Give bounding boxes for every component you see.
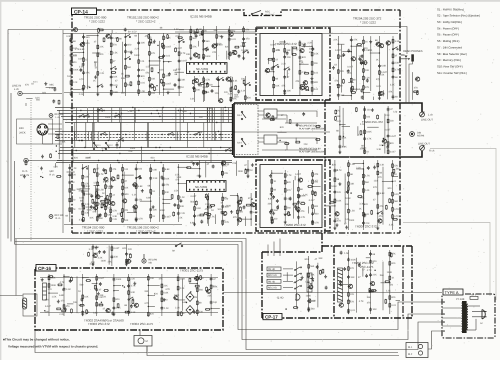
wire W239 [87,108,89,123]
resistor R172 [299,70,301,75]
svg-text:3.3K: 3.3K [66,288,71,291]
wire W162 [48,274,50,316]
junction dots on mute box [241,102,416,157]
resistor R147 [243,27,245,32]
svg-text:R ch: R ch [50,174,56,177]
wire W178 [161,274,163,316]
svg-text:0.047: 0.047 [87,208,94,211]
svg-text:1.5K: 1.5K [380,74,385,77]
svg-text:560: 560 [356,88,361,91]
wire W60 [362,36,364,100]
capacitor C273 [93,201,96,205]
svg-text:4.7K: 4.7K [210,216,215,219]
svg-text:M-1: M-1 [408,346,413,349]
svg-text:6.8K: 6.8K [80,48,85,51]
line-out return wire right edge [430,149,496,301]
resistor R238 [122,179,124,184]
svg-text:3.3K: 3.3K [389,223,394,226]
resistor R146 [216,34,218,39]
capacitor C147 [311,47,314,51]
junction J84 [178,183,179,184]
section headphone feed [413,72,420,100]
capacitor C125 [202,39,205,43]
ground G39 [376,226,379,229]
junction J30 [108,147,109,148]
capacitor C232 [92,245,95,249]
svg-text:47K: 47K [353,39,358,42]
svg-text:0.047: 0.047 [191,195,198,198]
svg-text:TR203 2SC-372: TR203 2SC-372 [275,42,297,46]
wire W206 [80,188,90,190]
wire W31 [198,41,200,47]
resistor R268 [245,169,247,174]
junction J138 [303,156,304,157]
ground G10 [242,56,245,59]
capacitor C129 [228,52,231,56]
resistor R291 [284,205,286,210]
svg-text:1.5K: 1.5K [117,213,122,216]
resistor R374 [189,278,191,283]
capacitor C105 [82,41,85,45]
junction J70 [363,92,364,93]
svg-text:22K: 22K [164,284,169,287]
resistor R344 [82,294,84,299]
transistor Q108 [194,79,199,83]
svg-text:4.7K: 4.7K [60,281,65,284]
wire W181 [196,274,198,316]
switch S6 rec muting [251,11,274,17]
svg-text:6.8K: 6.8K [342,145,347,148]
wire W197 [355,258,357,313]
wire W243 [96,108,98,123]
wire W153 [26,97,32,99]
capacitor C107 [110,36,113,40]
resistor R273 [237,209,239,214]
resistor R180 [292,47,297,49]
resistor R267 [221,171,223,176]
transistor Q105 [232,51,237,55]
wire W107 [94,184,100,186]
svg-text:33K: 33K [165,191,170,194]
svg-text:1K: 1K [376,58,379,61]
resistor R184 [337,69,339,74]
bus band A wire 1 [55,107,232,109]
plug loop box [23,294,37,316]
ground G16 [310,77,313,80]
wire W142 [362,160,364,230]
ground G48 [92,262,95,265]
svg-text:0.01: 0.01 [233,80,238,83]
resistor R260 [83,217,85,222]
junction J131 [414,102,415,103]
wire W121 [250,193,252,226]
switch box S3 dashed border [234,105,258,155]
svg-text:33K: 33K [350,276,355,279]
switch net wires L [258,111,317,123]
svg-text:R ch: R ch [429,150,435,153]
wire W187 [182,279,184,311]
resistor R411 [99,29,104,31]
junction J129 [411,102,412,103]
svg-text:PB HD: PB HD [268,280,275,283]
wire W85 [361,147,366,149]
junction J44 [80,110,81,111]
junction J108 [148,285,149,286]
ground G8 [189,56,192,59]
ground G7 [167,91,170,94]
resistor R197 [351,92,356,94]
capacitor C132 [205,48,208,52]
resistor R383 [125,311,130,313]
resistor R395 [389,261,391,266]
wire W83 [342,125,350,127]
svg-text:560: 560 [79,283,84,286]
junction J75 [383,138,384,139]
junction J15 [158,113,159,114]
svg-text:0.01: 0.01 [334,169,339,172]
resistor R308 [348,172,350,177]
resistor R393 [348,299,350,304]
wire W124 [237,196,239,225]
block CP-17 bottom border [262,317,412,319]
svg-text:100K: 100K [205,55,211,58]
motor M301 [134,336,152,347]
switch S15 [285,212,291,215]
svg-text:1.5K: 1.5K [153,177,158,180]
wire W149 [363,169,365,226]
junction J51 [163,61,164,62]
resistor R341 [48,275,50,280]
svg-text:1K: 1K [391,276,394,279]
capacitor C261 [369,273,372,277]
svg-text:47K: 47K [314,173,319,176]
wire W33 [232,49,236,51]
transistor Q148 [348,284,353,288]
resistor R164 [202,91,207,93]
junction J89 [250,218,251,219]
svg-text:22K: 22K [212,285,217,288]
switch S23 [84,114,90,117]
resistor R286 [271,187,273,192]
capacitor C134 [195,34,198,38]
svg-text:1K: 1K [152,215,155,218]
svg-text:0.047: 0.047 [181,60,188,63]
wire W26 [228,26,230,60]
transistor Q134 [237,218,242,222]
label CP-17 [263,314,282,320]
resistor R251 [171,194,173,199]
capacitor C264 [365,274,368,278]
op-amp IC101 NE-545B [187,63,228,74]
input wire top rail [8,29,258,31]
wire W228 [214,108,216,141]
svg-text:PB HD: PB HD [268,268,275,271]
ground G36 [272,212,275,215]
ground G41 [373,166,376,169]
junction J96 [392,181,393,182]
switch S14 [136,175,142,178]
wire W203 [83,182,85,216]
ground rail L [64,92,182,94]
svg-text:■This Circuit may be changed w: ■This Circuit may be changed without not… [3,337,70,341]
junction J27 [216,122,217,123]
capacitor C130 [242,37,245,41]
wire W84 [357,126,359,136]
capacitor C123 [168,72,171,76]
ground G21 [371,108,374,111]
head switch rows [267,267,302,290]
resistor R199 [357,44,362,46]
resistor R264 [101,203,103,208]
switch S19 [79,114,85,117]
resistor R353 [161,283,163,288]
capacitor C179 [81,202,84,206]
transistor Q118 [386,41,391,45]
capacitor C117 [178,78,181,82]
svg-text:100K: 100K [349,219,355,222]
svg-text:0.047: 0.047 [384,128,391,131]
capacitor C222 [334,169,337,173]
svg-text:33K: 33K [71,189,76,192]
svg-text:560: 560 [274,209,279,212]
transistor Q127 [132,183,137,187]
resistor R302 [272,219,274,224]
junction J60 [231,86,232,87]
svg-text:1.5K: 1.5K [99,188,104,191]
capacitor C216 [270,192,273,196]
rec head coil [307,273,312,292]
resistor R321 [392,199,394,204]
svg-text:100K: 100K [387,271,393,274]
ground G28 [247,174,250,177]
capacitor C215 [298,194,301,198]
label CP-16 [36,265,56,272]
svg-text:6.8K: 6.8K [107,185,112,188]
resistor R179 [268,58,273,60]
wire W88 [96,164,98,222]
capacitor C205 [200,220,203,224]
svg-text:470: 470 [378,176,383,179]
jack LINE OUT R [418,143,435,153]
resistor R365 [98,304,103,306]
resistor R158 [230,97,232,102]
svg-text:1K: 1K [273,180,276,183]
resistor R125 [163,82,165,87]
resistor R342 [48,283,50,288]
resistor R399 [369,288,371,293]
resistor R352 [147,312,149,317]
capacitor C138 [237,90,240,94]
svg-text:100K: 100K [93,252,99,255]
wire W171 [114,285,121,287]
ground G63 [324,275,327,278]
wire W155 [58,110,60,159]
junction J31 [117,134,118,135]
svg-text:MUTING: MUTING [265,14,275,17]
resistor R196 [392,67,394,72]
resistor R337 [111,246,113,251]
capacitor C180 [96,188,99,192]
svg-text:B+ 4.5V: B+ 4.5V [128,31,137,34]
resistor R406 [105,184,107,189]
transistor Q151 [103,203,108,207]
ground G38 [333,226,336,229]
motor jacks M-1 M-2 box [406,343,428,358]
wire W233 [88,132,90,141]
svg-text:6.8K: 6.8K [164,291,169,294]
svg-text:3.3K: 3.3K [196,207,201,210]
resistor R253 [121,212,123,217]
wire W210 [111,30,113,33]
wire W146 [392,160,394,230]
resistor R218 [387,149,389,154]
svg-text:REC HD: REC HD [268,287,277,290]
wire inner left vertical [62,30,64,233]
resistor R119 [149,51,151,56]
svg-text:820: 820 [332,164,337,167]
transistor Q106 [211,44,216,48]
resistor R135 [111,72,116,74]
ground G24 [141,189,144,192]
label CP-14 [72,8,97,15]
resistor R224 [69,188,71,193]
svg-text:1K: 1K [31,83,34,86]
block CP-17 top right border [322,245,412,247]
wire W229 [111,108,113,123]
svg-text:TR304 2SC-1175: TR304 2SC-1175 [130,322,153,326]
wire W74 [295,138,297,144]
ground G14 [206,82,209,85]
wire W184 [211,307,220,309]
section input stage R [65,164,188,223]
wire W245 [93,123,95,148]
svg-text:10K: 10K [73,301,78,304]
ground G26 [110,185,113,188]
junction J48 [83,52,84,53]
wire W86 [69,164,71,222]
ground G58 [64,307,67,310]
ground G37 [269,174,272,177]
svg-text:TR208 2SC-372: TR208 2SC-372 [362,120,383,124]
wire W46 [299,40,301,95]
resistor R294 [312,172,314,177]
wire W52 [286,70,288,77]
capacitor C111 [124,50,127,54]
junction J58 [158,72,159,73]
resistor R163 [192,79,194,84]
wire W82 [367,126,378,128]
junction J83 [178,167,179,168]
resistor R371 [71,277,73,282]
ground G62 [311,277,314,280]
wire W219 [220,108,222,141]
block power transformer TYPE A [442,294,495,338]
ground G34 [284,220,287,223]
svg-text:470: 470 [112,168,117,171]
capacitor C246 [69,279,72,283]
resistor R400 [385,281,390,283]
capacitor C268 [358,263,361,267]
svg-text:22K: 22K [276,49,281,52]
svg-text:10K: 10K [84,295,89,298]
svg-text:10K: 10K [141,42,146,45]
capacitor C141 [283,55,286,59]
wire W10 [148,33,150,96]
capacitor C238 [95,288,98,292]
wire W159 [125,244,127,266]
junction J53 [168,61,169,62]
resistor R154 [193,87,195,92]
wire W242 [134,108,136,141]
switch S18 [101,132,107,135]
wire W78 [387,106,389,154]
resistor R397 [389,295,391,300]
bus band C wire 2 [59,150,232,152]
svg-text:47K: 47K [365,86,370,89]
wire W147 [382,181,393,183]
transistor Q138 [334,212,339,216]
capacitor C191 [180,199,183,203]
wire W77 [364,106,366,154]
capacitor C154 [378,64,381,68]
svg-text:* 2SC-1222: * 2SC-1222 [87,229,103,233]
ground G23 [135,218,138,221]
resistor R282 [204,212,209,214]
capacitor C114 [137,74,140,78]
svg-text:10K: 10K [223,197,228,200]
svg-text:* 2SC-1222×2: * 2SC-1222×2 [136,229,156,233]
wire W19 [149,64,159,66]
wire W14 [164,88,174,90]
capacitor C192 [98,214,101,218]
resistor R293 [298,194,300,199]
svg-text:0.01: 0.01 [314,88,319,91]
resistor R309 [348,181,350,186]
wire W250 [228,108,230,123]
svg-text:22K: 22K [365,222,370,225]
junction J22 [156,110,157,111]
resistor R256 [96,191,98,196]
resistor R402 [369,290,374,292]
resistor R272 [222,220,224,225]
capacitor C241 [127,284,130,288]
wire W114 [205,161,207,177]
wire W23 [190,26,192,60]
svg-text:100K: 100K [134,54,140,57]
svg-text:4.7K: 4.7K [138,217,143,220]
junction J25 [154,160,155,161]
resistor R202 [361,59,363,64]
resistor R392 [348,292,350,297]
capacitor C120 [82,87,85,91]
motor leads [140,330,147,353]
wire W248 [176,132,178,141]
wire W38 [230,76,232,102]
resistor R191 [363,85,365,90]
pre amp box R [264,135,277,144]
svg-text:820: 820 [287,181,292,184]
resistor R175 [311,70,313,75]
capacitor C172 [387,107,390,111]
wire W3 [83,33,85,96]
junction J14 [225,107,226,108]
jack REC MD L [49,113,64,119]
resistor R128 [117,37,119,42]
section left input R parts [23,153,62,178]
svg-text:1K: 1K [187,131,190,134]
svg-text:2.2K: 2.2K [180,196,185,199]
wire W196 [381,282,390,284]
